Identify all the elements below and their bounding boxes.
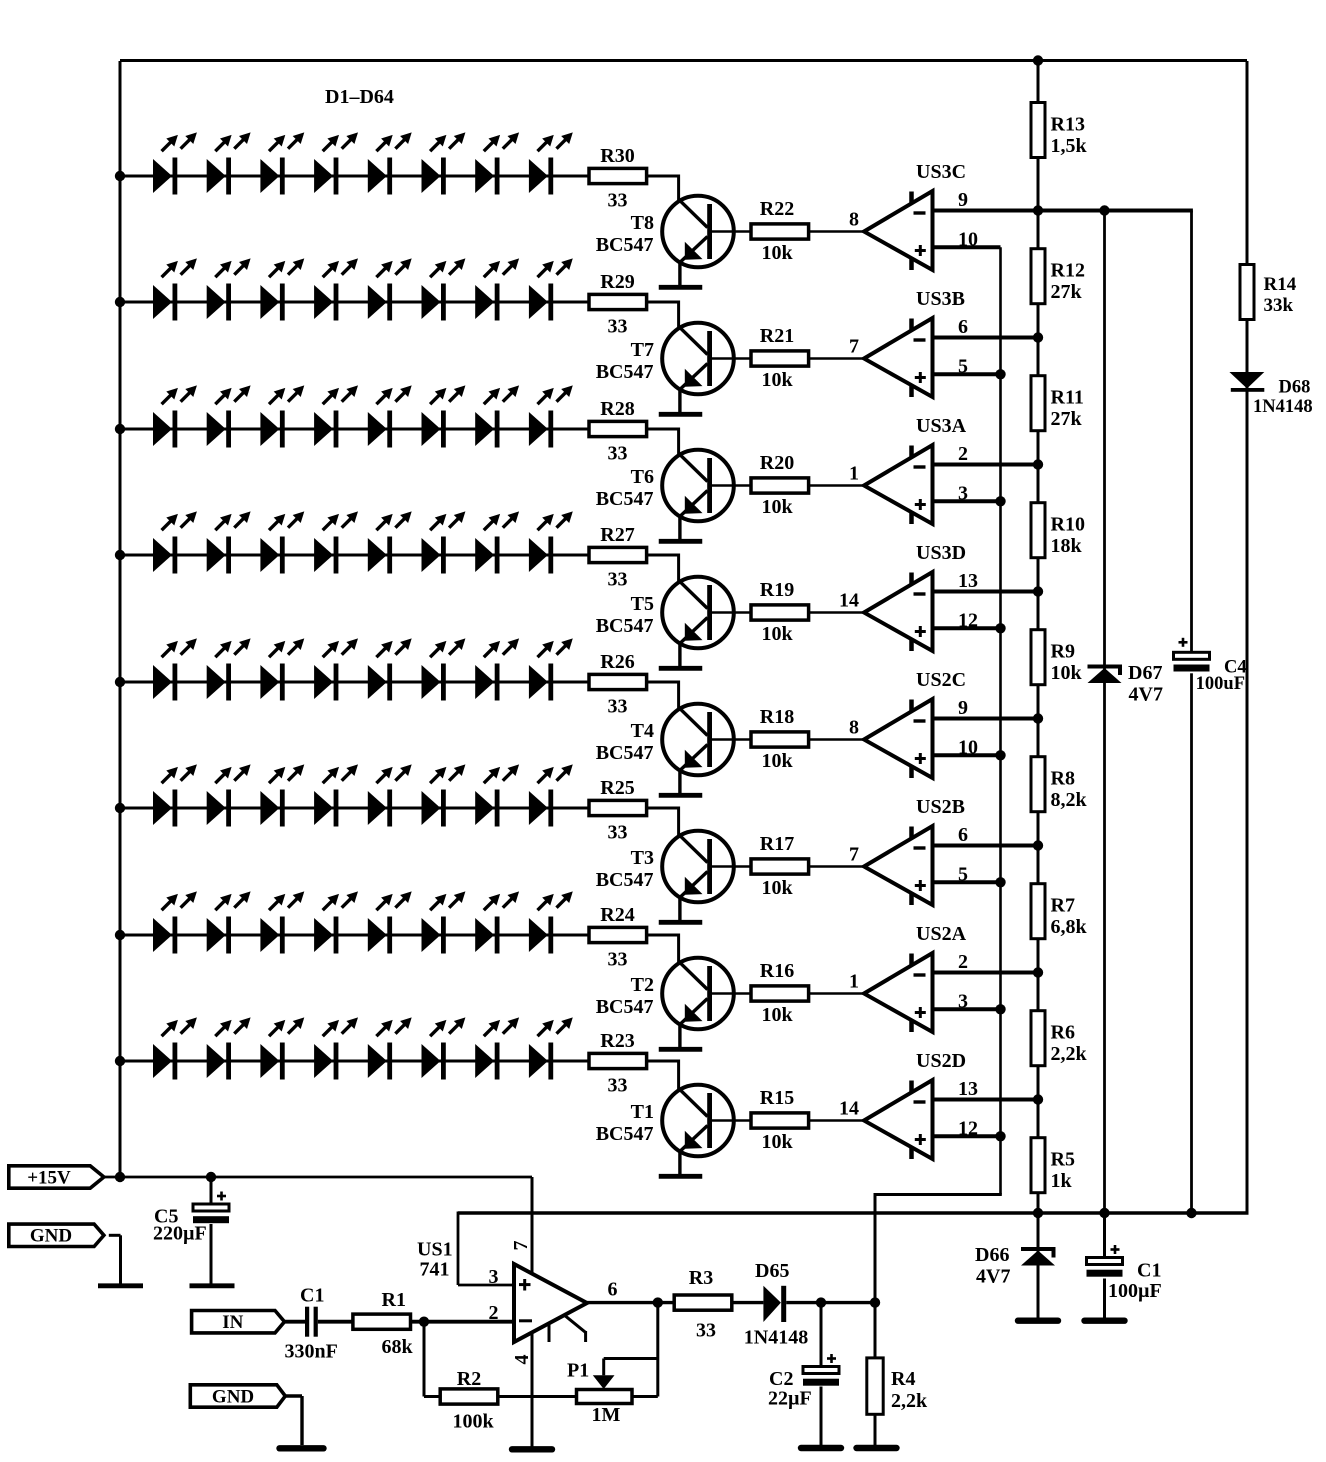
wire: LED row 6 [120,807,590,810]
wire: US3A inverting input to ladder tap [934,463,1038,467]
node: LED row 7 on +15V bus [115,930,125,940]
node: LED row 4 on +15V bus [115,550,125,560]
wire: P1 right terminal to output [656,1303,659,1397]
wire: US1 pin7 to +15V [531,1177,534,1274]
node: non-inverting bus tap 3 [995,496,1005,506]
wire: US2D non-inverting input [934,1134,1001,1138]
wire: US3A non-inverting input [934,499,1001,503]
wire: US2D inverting input to ladder tap [934,1098,1038,1102]
wire: IN to C1 input cap [285,1320,305,1324]
wire: R19 to US3D output [809,611,864,614]
svg-text:R4: R4 [891,1368,915,1390]
resistor R30 [589,168,647,183]
svg-text:4: 4 [511,1355,533,1365]
node: LED row 1 on +15V bus [115,171,125,181]
LED D1-D64 row 1 #5 [368,132,412,194]
svg-text:R12: R12 [1051,260,1085,282]
svg-text:US2C: US2C [916,669,966,691]
op-amp US3B [864,318,933,397]
LED D1-D64 row 1 #8 [529,132,573,194]
node: non-inverting bus tap 4 [995,623,1005,633]
svg-text:R5: R5 [1051,1149,1075,1171]
svg-text:BC547: BC547 [596,234,654,256]
LED D1-D64 row 4 #6 [422,511,466,573]
node: detector output / C2 [816,1297,826,1307]
svg-text:R22: R22 [760,198,794,220]
wire: reference bus to US1 pin3 [457,1212,460,1286]
svg-text:C1: C1 [1137,1260,1161,1282]
LED D1-D64 row 3 #7 [475,385,519,447]
LED D1-D64 row 4 #4 [314,511,358,573]
svg-text:R20: R20 [760,452,794,474]
svg-text:33: 33 [608,190,628,212]
node: LED row 3 on +15V bus [115,424,125,434]
svg-text:R18: R18 [760,706,794,728]
node: pin2 / R2 junction [419,1317,429,1327]
wire: T7 base to R21 [712,357,751,360]
resistor R18 [751,732,809,747]
wire: D66 branch [1037,1213,1040,1320]
resistor R8 [1031,757,1045,812]
svg-text:T5: T5 [631,593,654,615]
LED D1-D64 row 7 #7 [475,891,519,953]
wire: US3C non-inverting input [934,245,1001,249]
svg-text:BC547: BC547 [596,1123,654,1145]
svg-text:BC547: BC547 [596,361,654,383]
wire: T5 emitter [678,643,681,666]
node: non-inverting bus tap 7 [995,1004,1005,1014]
svg-text:33: 33 [608,949,628,971]
LED D1-D64 row 8 #4 [314,1017,358,1079]
svg-text:10: 10 [958,736,978,758]
svg-text:33: 33 [608,696,628,718]
svg-text:100uF: 100uF [1196,674,1245,694]
ground bar T6 emitter [659,539,703,544]
wire: LED row 5 [120,681,590,684]
svg-text:6: 6 [958,316,968,338]
zener diode D67 4V7 [1088,667,1123,684]
svg-text:R26: R26 [600,651,634,673]
transistor T5 BC547 [662,577,734,649]
LED D1-D64 row 7 #4 [314,891,358,953]
svg-text:R11: R11 [1051,387,1084,409]
svg-text:R2: R2 [457,1368,481,1390]
wire: R30 to T8 collector [647,175,679,178]
wire: LED row 2 [120,301,590,304]
transistor T3 BC547 [662,831,734,903]
LED D1-D64 row 2 #4 [314,258,358,320]
svg-text:22µF: 22µF [768,1388,812,1410]
wire: R22 to US3C output [809,230,864,233]
node: ladder tap 8 [1033,1094,1043,1104]
LED D1-D64 row 1 #4 [314,132,358,194]
svg-text:T8: T8 [631,212,654,234]
svg-text:R1: R1 [382,1289,406,1311]
LED D1-D64 row 1 #6 [422,132,466,194]
svg-text:R30: R30 [600,145,634,167]
svg-text:BC547: BC547 [596,869,654,891]
svg-text:4V7: 4V7 [1129,684,1163,706]
flag +15V [9,1166,104,1189]
svg-text:R13: R13 [1051,114,1085,136]
svg-text:R14: R14 [1264,274,1297,295]
wire: D67 branch vertical [1103,211,1106,1214]
svg-text:GND: GND [30,1226,72,1247]
LED D1-D64 row 4 #7 [475,511,519,573]
wire: T4 base to R18 [712,738,751,741]
node: non-inverting bus tap 6 [995,877,1005,887]
resistor R16 [751,986,809,1001]
op-amp US2C [864,699,933,778]
LED D1-D64 row 1 #1 [153,132,197,194]
wire: GND flag lead [109,1234,121,1237]
zener diode D66 4V7 [1021,1249,1056,1266]
svg-text:330nF: 330nF [285,1341,338,1363]
resistor R28 [589,421,647,436]
wire: R23 to T1 collector [647,1060,679,1063]
svg-text:6: 6 [608,1279,618,1301]
node: non-inverting bus tap 8 [995,1131,1005,1141]
resistor R14 [1240,265,1254,320]
svg-text:T3: T3 [631,847,654,869]
ground bar T7 emitter [659,412,703,417]
svg-text:IN: IN [222,1312,243,1333]
LED D1-D64 row 6 #2 [207,764,251,826]
LED D1-D64 row 5 #3 [260,638,304,700]
svg-text:R6: R6 [1051,1022,1075,1044]
wire: +15V left supply bus [119,61,122,1177]
resistor R4 [867,1358,883,1414]
svg-text:10k: 10k [761,877,793,899]
svg-text:5: 5 [958,863,968,885]
svg-text:R29: R29 [600,271,634,293]
resistor R7 [1031,884,1045,939]
svg-text:13: 13 [958,1078,978,1100]
svg-text:3: 3 [958,990,968,1012]
svg-text:220µF: 220µF [153,1223,207,1245]
LED D1-D64 row 7 #8 [529,891,573,953]
svg-text:6,8k: 6,8k [1051,916,1088,938]
svg-text:2: 2 [958,951,968,973]
wire: non-inverting input bus [999,247,1002,1194]
resistor R1 [353,1314,411,1329]
svg-text:33: 33 [608,569,628,591]
LED D1-D64 row 1 #3 [260,132,304,194]
svg-text:33: 33 [608,443,628,465]
svg-text:10k: 10k [761,1004,793,1026]
svg-text:+15V: +15V [27,1167,71,1188]
svg-text:4V7: 4V7 [976,1266,1010,1288]
LED D1-D64 row 3 #8 [529,385,573,447]
svg-text:D1–D64: D1–D64 [325,86,394,108]
LED D1-D64 row 2 #6 [422,258,466,320]
svg-text:T6: T6 [631,466,654,488]
ground bar T8 emitter [659,285,703,290]
ground R4 [857,1445,897,1451]
svg-text:6: 6 [958,824,968,846]
LED D1-D64 row 2 #2 [207,258,251,320]
svg-text:T4: T4 [631,720,654,742]
svg-text:12: 12 [958,1117,978,1139]
svg-text:1M: 1M [592,1404,621,1426]
svg-text:2,2k: 2,2k [1051,1043,1088,1065]
LED D1-D64 row 5 #7 [475,638,519,700]
LED D1-D64 row 6 #6 [422,764,466,826]
svg-text:27k: 27k [1051,281,1083,303]
wire: US3D non-inverting input [934,626,1001,630]
svg-text:2: 2 [489,1302,499,1324]
svg-text:7: 7 [849,844,859,866]
transistor T6 BC547 [662,450,734,522]
resistor R2 [440,1389,498,1404]
LED D1-D64 row 8 #8 [529,1017,573,1079]
wire: C2 upper lead [820,1303,823,1367]
LED D1-D64 row 5 #4 [314,638,358,700]
node: ladder tap 6 [1033,840,1043,850]
svg-text:R27: R27 [600,524,634,546]
wire: T3 emitter [678,897,681,920]
wire: R4 lower lead [874,1414,877,1446]
resistor R24 [589,927,647,942]
wire: US3D inverting input to ladder tap [934,590,1038,594]
wire: US1 pin4 to ground [531,1333,534,1448]
svg-text:BC547: BC547 [596,488,654,510]
wire: US2B non-inverting input [934,880,1001,884]
svg-text:33k: 33k [1264,295,1294,316]
node: top rail / R13 [1033,55,1043,65]
svg-text:R9: R9 [1051,641,1075,663]
transistor T2 BC547 [662,958,734,1030]
LED D1-D64 row 7 #2 [207,891,251,953]
resistor R5 [1031,1138,1045,1193]
wire: reference bus [458,1211,1249,1215]
wire: US2B inverting input to ladder tap [934,844,1038,848]
LED D1-D64 row 8 #6 [422,1017,466,1079]
wire: T1 emitter [678,1151,681,1174]
svg-text:1,5k: 1,5k [1051,135,1088,157]
ground GND lower [280,1445,324,1451]
svg-text:741: 741 [420,1259,450,1281]
LED D1-D64 row 5 #6 [422,638,466,700]
LED D1-D64 row 6 #1 [153,764,197,826]
wire: LED row 4 [120,554,590,557]
svg-text:D68: D68 [1279,378,1311,398]
resistor R12 [1031,249,1045,304]
LED D1-D64 row 4 #3 [260,511,304,573]
flag GND lower [190,1385,285,1408]
wire: divider ladder vertical [1037,61,1040,1213]
wire: T4 emitter [678,770,681,793]
svg-text:R25: R25 [600,777,634,799]
node: reference bus / R5-D66 [1033,1208,1043,1218]
LED D1-D64 row 2 #7 [475,258,519,320]
ground bar T3 emitter [659,920,703,925]
svg-text:US2B: US2B [916,796,965,818]
LED D1-D64 row 7 #3 [260,891,304,953]
wire: T8 base to R22 [712,230,751,233]
wire: R25 to T3 collector [647,807,679,810]
LED D1-D64 row 8 #3 [260,1017,304,1079]
wire: C1 branch [1103,1213,1106,1320]
wire: T6 base to R20 [712,484,751,487]
svg-text:D67: D67 [1128,662,1162,684]
LED D1-D64 row 7 #1 [153,891,197,953]
LED D1-D64 row 3 #1 [153,385,197,447]
capacitor C1 330nF [305,1307,309,1337]
LED D1-D64 row 6 #7 [475,764,519,826]
svg-text:US2A: US2A [916,923,967,945]
svg-text:R24: R24 [600,904,634,926]
wire: US3B non-inverting input [934,372,1001,376]
flag GND upper [9,1224,104,1247]
svg-text:C1: C1 [300,1285,324,1307]
svg-text:9: 9 [958,189,968,211]
svg-text:R28: R28 [600,398,634,420]
resistor R26 [589,674,647,689]
ground bar T2 emitter [659,1047,703,1052]
wire: R24 to T2 collector [647,934,679,937]
ground US1 pin4 [512,1446,552,1452]
svg-text:GND: GND [212,1386,254,1407]
svg-text:R10: R10 [1051,514,1085,536]
svg-text:R16: R16 [760,960,794,982]
resistor R6 [1031,1011,1045,1066]
wire: top supply rail [120,59,1247,62]
resistor R21 [751,351,809,366]
resistor R22 [751,224,809,239]
ground C1 [1085,1317,1125,1323]
LED D1-D64 row 3 #4 [314,385,358,447]
svg-text:D66: D66 [975,1244,1009,1266]
svg-text:12: 12 [958,609,978,631]
node: detector output / R4 [870,1297,880,1307]
capacitor C1 100uF [1086,1245,1124,1279]
op-amp US3D [864,572,933,651]
potentiometer P1 1M [577,1390,633,1404]
svg-text:BC547: BC547 [596,742,654,764]
wire: T2 emitter [678,1024,681,1047]
node: LED row 2 on +15V bus [115,297,125,307]
svg-text:T1: T1 [631,1101,654,1123]
svg-text:T2: T2 [631,974,654,996]
wire: R2 to P1 [498,1395,577,1398]
wire: signal feed vertical [874,1195,877,1303]
resistor R23 [589,1053,647,1068]
svg-text:27k: 27k [1051,408,1083,430]
wire: C5 lower lead [210,1224,213,1284]
svg-text:R7: R7 [1051,895,1075,917]
wire: R20 to US3A output [809,484,864,487]
svg-text:13: 13 [958,570,978,592]
wire: T8 emitter [678,262,681,285]
op-amp US2A [864,953,933,1032]
svg-text:5: 5 [958,355,968,377]
LED D1-D64 row 4 #1 [153,511,197,573]
LED D1-D64 row 4 #8 [529,511,573,573]
svg-text:14: 14 [839,590,859,612]
resistor R9 [1031,630,1045,685]
capacitor C4 100uF [1173,638,1211,674]
svg-text:2,2k: 2,2k [891,1390,928,1412]
diode D68 [1229,372,1264,389]
LED D1-D64 row 7 #6 [422,891,466,953]
resistor R25 [589,800,647,815]
ground D66 [1018,1317,1058,1323]
wire: R29 to T7 collector [647,301,679,304]
svg-text:100µF: 100µF [1108,1280,1162,1302]
LED D1-D64 row 1 #7 [475,132,519,194]
svg-text:100k: 100k [452,1411,494,1433]
resistor R10 [1031,503,1045,558]
LED D1-D64 row 3 #5 [368,385,412,447]
wire: D65 to R4 node [786,1301,875,1304]
wire: right branch R14/D68 down to reference bus [1246,61,1249,1213]
resistor R19 [751,605,809,620]
node: ladder tap 7 [1033,967,1043,977]
LED D1-D64 row 8 #7 [475,1017,519,1079]
svg-text:8: 8 [849,717,859,739]
ground bar T5 emitter [659,666,703,671]
LED D1-D64 row 4 #5 [368,511,412,573]
wire: US2A inverting input to ladder tap [934,971,1038,975]
capacitor C5 220uF [192,1192,230,1226]
node: ladder tap 5 [1033,713,1043,723]
op-amp US3C [864,191,933,270]
diode D65 1N4148 [763,1286,781,1322]
resistor R17 [751,859,809,874]
svg-text:R23: R23 [600,1030,634,1052]
LED D1-D64 row 6 #4 [314,764,358,826]
svg-text:1N4148: 1N4148 [1253,397,1313,417]
LED D1-D64 row 3 #3 [260,385,304,447]
svg-text:R19: R19 [760,579,794,601]
LED D1-D64 row 2 #8 [529,258,573,320]
svg-text:R3: R3 [689,1267,713,1289]
node: non-inverting bus tap 5 [995,750,1005,760]
wire: C1 to R1 [318,1320,353,1324]
LED D1-D64 row 3 #6 [422,385,466,447]
wire: GND lower lead [285,1394,302,1397]
resistor R11 [1031,376,1045,431]
svg-text:68k: 68k [382,1336,414,1358]
transistor T1 BC547 [662,1085,734,1157]
wire: R28 to T6 collector [647,428,679,431]
transistor T7 BC547 [662,323,734,395]
wire: R1 to US1 pin2 [410,1320,514,1324]
LED D1-D64 row 7 #5 [368,891,412,953]
svg-text:BC547: BC547 [596,996,654,1018]
resistor R15 [751,1113,809,1128]
node: ladder tap 2 [1033,332,1043,342]
LED D1-D64 row 5 #5 [368,638,412,700]
LED D1-D64 row 8 #2 [207,1017,251,1079]
node: ladder tap 1 [1033,205,1043,215]
wire: C4 branch vertical [1190,211,1193,1214]
wire: US2C non-inverting input [934,753,1001,757]
wire: R18 to US2C output [809,738,864,741]
wire: R4 upper lead [874,1303,877,1358]
node: tap/D67 branch [1099,205,1109,215]
wire: R21 to US3B output [809,357,864,360]
svg-text:US3A: US3A [916,415,967,437]
svg-text:8,2k: 8,2k [1051,789,1088,811]
svg-text:7: 7 [849,336,859,358]
svg-text:T7: T7 [631,339,654,361]
svg-text:14: 14 [839,1098,859,1120]
op-amp US1 741 [514,1264,587,1342]
node: ladder tap 4 [1033,586,1043,596]
svg-text:8: 8 [849,209,859,231]
